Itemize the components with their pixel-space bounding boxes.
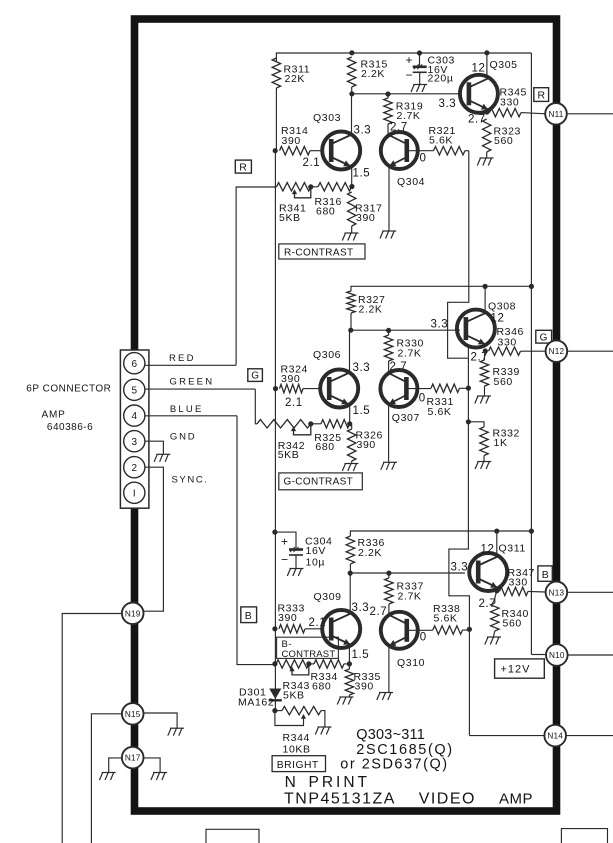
wire: R314 to Q303 base (310, 150, 322, 152)
label box +12V (495, 659, 545, 678)
junction: R315 top / bus (349, 50, 354, 55)
resistor R332 1K (480, 427, 488, 456)
wiper arm R342 (294, 424, 311, 435)
connector pin 3 (124, 431, 145, 452)
connector pin 6 (124, 353, 145, 374)
svg-text:640386-6: 640386-6 (47, 422, 93, 433)
svg-text:N14: N14 (547, 732, 563, 741)
wire: Q306 collector riser (349, 330, 351, 373)
svg-text:Q310: Q310 (397, 657, 425, 669)
potentiometer R344 10KB (282, 706, 321, 714)
svg-text:BLUE: BLUE (170, 404, 204, 415)
resistor R330 2.7K (384, 335, 392, 361)
svg-text:390: 390 (282, 135, 301, 147)
ground: R317 (342, 233, 358, 241)
ground: R323 (477, 158, 493, 166)
transistor Q308 (457, 310, 495, 348)
wire: feed line to N14 (469, 735, 544, 737)
svg-text:680: 680 (316, 206, 335, 218)
resistor R323 560 (483, 119, 491, 152)
junction: R343 wiper (306, 661, 311, 666)
wire: bus to C303 (419, 53, 421, 66)
svg-text:N17: N17 (125, 754, 141, 763)
ground: R344 (315, 727, 331, 735)
wire: +12V rail right side (top segment) (530, 53, 532, 287)
svg-text:3.3: 3.3 (354, 125, 372, 137)
svg-text:CONTRAST: CONTRAST (282, 649, 336, 660)
svg-text:5KB: 5KB (283, 690, 305, 702)
svg-text:2.1: 2.1 (285, 397, 303, 409)
wire: C304 to ground (295, 555, 297, 568)
ground: C304 (287, 569, 303, 577)
wire: GREEN input to R342 (255, 389, 257, 424)
wire: G stage top bus (351, 286, 531, 291)
wiper arm R343 (292, 664, 309, 675)
junction: Q308 collector / bus (483, 284, 488, 289)
wire: Q306 emitter down (349, 404, 351, 423)
junction: Q306 collector / bus (348, 328, 353, 333)
resistor R327 2.2K (347, 291, 355, 313)
wire: N19 to left riser (62, 614, 122, 843)
junction: Q306 emitter / R325 / R326 (347, 421, 352, 426)
capacitor C304 10u (289, 547, 303, 555)
resistor R334 680 (314, 660, 344, 668)
svg-text:N: N (285, 774, 297, 791)
wire: R347 to N13 (528, 590, 546, 593)
potentiometer R342 5KB (257, 420, 311, 428)
svg-text:2: 2 (132, 463, 138, 474)
node: R input (273, 148, 278, 153)
label box B-CONTRAST (277, 637, 339, 658)
node N13 (546, 582, 568, 604)
wire: +12V top bus (R stage) (276, 53, 531, 61)
ground: R335 (337, 697, 353, 705)
svg-text:3.3: 3.3 (352, 602, 370, 614)
svg-text:390: 390 (278, 612, 297, 624)
wire: Q310 base lead to R338 (407, 629, 433, 631)
ground: pin 3 GND (154, 454, 170, 462)
svg-text:SYNC.: SYNC. (172, 475, 209, 486)
svg-text:N19: N19 (125, 609, 141, 618)
svg-text:BRIGHT: BRIGHT (277, 760, 319, 771)
transistor Q306 (320, 370, 358, 408)
resistor R317 390 (348, 192, 356, 226)
svg-text:0: 0 (420, 153, 427, 165)
wire: net to R332 (468, 422, 484, 427)
wire: Q311 base bus (350, 572, 465, 574)
junction: C304 / bias bus (272, 530, 277, 535)
svg-text:2.1: 2.1 (303, 157, 321, 169)
svg-text:390: 390 (356, 212, 375, 224)
junction: Q308 emitter node (483, 348, 488, 353)
svg-text:GND: GND (170, 432, 197, 443)
svg-text:+: + (406, 53, 414, 67)
svg-text:or 2SD637(Q): or 2SD637(Q) (340, 757, 448, 773)
svg-text:PRINT: PRINT (309, 774, 371, 791)
svg-text:0: 0 (419, 393, 426, 405)
svg-text:Q303~311: Q303~311 (356, 727, 425, 743)
resistor R326 390 (348, 429, 356, 461)
svg-text:N10: N10 (549, 651, 565, 660)
junction: Q303 emitter / R316 / R317 (349, 184, 354, 189)
wire: +12V rail (middle segment) (530, 287, 532, 531)
resistor R319 2.7K (384, 98, 392, 124)
wire: Q305 collector riser (486, 53, 488, 78)
svg-text:6P CONNECTOR: 6P CONNECTOR (26, 383, 111, 394)
svg-text:12: 12 (481, 544, 495, 556)
transistor Q303 (322, 132, 360, 170)
wiper arm R344 (275, 711, 304, 726)
svg-text:R: R (538, 89, 546, 101)
svg-text:+12V: +12V (501, 664, 531, 676)
node N12 (546, 340, 568, 362)
transistor Q310 (381, 612, 418, 649)
svg-text:N12: N12 (549, 347, 565, 356)
resistor R345 330 (490, 108, 522, 116)
ground: Q304 emitter (380, 231, 396, 239)
svg-text:5.6K: 5.6K (429, 135, 453, 147)
node N14 (544, 725, 566, 747)
svg-text:AMP: AMP (42, 409, 66, 420)
svg-text:6: 6 (132, 359, 138, 370)
wire: N17 left ground (109, 758, 122, 772)
partial box bottom-right (561, 829, 607, 843)
svg-text:N15: N15 (125, 710, 141, 719)
ground: N15 right (168, 728, 184, 736)
resistor R346 330 (489, 347, 521, 355)
wiper arm R341 (295, 187, 311, 198)
node N19 (122, 603, 144, 625)
svg-text:RED: RED (169, 353, 196, 364)
svg-text:Q311: Q311 (499, 543, 526, 555)
resistor R339 560 (480, 360, 488, 386)
svg-text:390: 390 (357, 439, 376, 451)
resistor R316 680 (318, 183, 352, 191)
net label R (output) (534, 88, 549, 102)
wire: RED from pin 6 (145, 364, 236, 366)
junction: R332 / net (466, 419, 471, 424)
svg-text:10µ: 10µ (306, 556, 326, 568)
ground: R340 (485, 637, 501, 645)
wire: N12 to edge (567, 350, 613, 352)
wire: R324 to Q306 base (303, 388, 320, 390)
resistor R333 390 (279, 625, 305, 633)
resistor R337 2.7K (385, 578, 393, 604)
svg-text:VIDEO: VIDEO (419, 791, 476, 808)
svg-text:Q305: Q305 (490, 59, 518, 71)
svg-text:5.6K: 5.6K (428, 406, 452, 418)
resistor R335 390 (345, 669, 353, 695)
svg-text:220µ: 220µ (428, 73, 454, 85)
wire: R315 to base bus (351, 87, 353, 94)
svg-text:MA162: MA162 (238, 696, 274, 708)
label box BRIGHT (272, 756, 325, 772)
transistor Q311 (469, 553, 507, 591)
wire: N10 to edge (567, 654, 613, 656)
net label B (input) (241, 607, 257, 623)
wire: BLUE from pin 4 (145, 415, 237, 417)
transistor Q305 (460, 75, 498, 113)
svg-text:5.6K: 5.6K (434, 613, 458, 625)
net label G (output) (536, 330, 552, 343)
wire: N15 right ground (144, 713, 178, 728)
transistor Q304 (381, 132, 418, 169)
wire: GREEN from pin 5 (145, 388, 255, 390)
resistor R314 390 (280, 147, 311, 155)
svg-text:2.7K: 2.7K (398, 348, 422, 360)
svg-text:390: 390 (281, 373, 300, 385)
svg-text:3.3: 3.3 (439, 98, 457, 110)
resistor R338 5.6K (433, 626, 463, 634)
svg-text:1.5: 1.5 (353, 405, 371, 417)
wire: B stage top bus (350, 531, 531, 536)
net label B (output) (538, 566, 552, 581)
ground: N17 right (151, 773, 167, 781)
wire: Q307 emitter to ground (388, 405, 390, 462)
svg-text:0: 0 (420, 631, 427, 643)
svg-text:680: 680 (315, 441, 334, 453)
node N17 (122, 747, 144, 769)
connector pin 2 (124, 457, 145, 478)
ground: N17 left (100, 773, 116, 781)
wire: GND from pin 3 (145, 441, 164, 454)
wire: Q311 collector riser (496, 531, 498, 556)
resistor R340 560 (491, 603, 499, 631)
wire: Q308 base bus (351, 329, 460, 331)
resistor R311 22K (272, 58, 280, 88)
svg-text:2.2K: 2.2K (359, 304, 383, 316)
junction: C303 / top bus (417, 50, 422, 55)
junction: Q305 emitter node (484, 109, 489, 114)
svg-text:2.7K: 2.7K (398, 591, 422, 603)
resistor R331 5.6K (431, 384, 460, 392)
diode D301 MA162 (269, 689, 281, 700)
wire: input bias bus vertical (274, 151, 276, 711)
svg-text:10KB: 10KB (283, 743, 311, 755)
wire: R319 to Q304 (387, 124, 389, 135)
ground: R332 (475, 462, 491, 470)
junction: R341 wiper (308, 184, 313, 189)
junction: R337 top (386, 571, 391, 576)
svg-text:TNP45131ZA: TNP45131ZA (284, 791, 396, 808)
svg-text:−: − (281, 553, 289, 567)
svg-text:G: G (540, 332, 548, 343)
svg-text:G-CONTRAST: G-CONTRAST (284, 477, 354, 488)
wire: R311 bottom to input node (275, 88, 277, 151)
svg-text:560: 560 (503, 618, 522, 630)
wire: +12V rail to N10 (531, 654, 546, 656)
svg-text:1.5: 1.5 (352, 649, 370, 661)
svg-text:3.3: 3.3 (353, 362, 371, 374)
svg-text:1.5: 1.5 (353, 168, 371, 180)
junction: bus / 12V rail (529, 529, 534, 534)
label box G-CONTRAST (279, 473, 363, 490)
ground: Q310 emitter (377, 693, 393, 701)
svg-text:680: 680 (312, 680, 331, 692)
wire: R337 to Q310 (388, 604, 390, 615)
wire: N15 left riser (91, 714, 122, 843)
svg-text:1K: 1K (494, 437, 508, 449)
wire: Q308 base net vertical / feed to B stage (449, 346, 470, 736)
junction: R330 top (386, 328, 391, 333)
potentiometer R341 5KB (277, 183, 311, 191)
node: B input / R333 (272, 626, 277, 631)
svg-text:2.7: 2.7 (468, 114, 486, 126)
wire: R321 feed line down with jog (448, 151, 469, 359)
net label G (input) (248, 369, 263, 382)
svg-text:Q306: Q306 (313, 349, 341, 361)
junction: R331 / net (466, 386, 471, 391)
svg-text:N11: N11 (548, 110, 563, 119)
svg-text:Q303: Q303 (313, 112, 341, 124)
resistor R321 5.6K (434, 147, 466, 155)
svg-text:5KB: 5KB (279, 212, 301, 224)
main board border (135, 19, 557, 811)
junction: Q303 collector / bus (349, 91, 354, 96)
junction: Q311 collector / bus (494, 529, 499, 534)
svg-text:560: 560 (494, 135, 513, 147)
resistor R325 680 (321, 420, 350, 428)
wire: Q307 base lead to R331 (407, 388, 432, 390)
svg-text:+: + (281, 534, 289, 548)
junction: Q305 collector / top bus (484, 50, 489, 55)
svg-text:4: 4 (132, 411, 138, 422)
wire: R344 right to ground (321, 711, 325, 727)
wire: SYNC from pin 2 to N19 (144, 467, 164, 611)
wire: Q309 emitter down (348, 645, 350, 664)
junction: bus / 12V rail (529, 284, 534, 289)
svg-text:GREEN: GREEN (170, 377, 215, 388)
ground: C303 (411, 85, 427, 93)
svg-text:3.3: 3.3 (451, 562, 469, 574)
resistor R347 330 (500, 587, 529, 595)
svg-text:I: I (133, 488, 136, 499)
wire: Q303 collector riser (351, 94, 353, 135)
node N15 (122, 703, 144, 725)
resistor R324 390 (280, 384, 304, 392)
svg-text:5: 5 (132, 385, 138, 396)
svg-text:Q309: Q309 (314, 591, 342, 603)
svg-text:Q308: Q308 (488, 301, 516, 313)
svg-text:3.3: 3.3 (431, 319, 449, 331)
wire: BLUE input to R343 (237, 416, 276, 665)
capacitor C303 220u (413, 64, 427, 72)
svg-text:330: 330 (500, 96, 519, 108)
wire: N14 to edge (566, 735, 613, 737)
resistor R336 2.2K (346, 536, 354, 564)
svg-text:12: 12 (491, 313, 505, 325)
wire: Q304 emitter to ground (388, 167, 390, 231)
svg-text:AMP: AMP (499, 791, 533, 808)
wire: R346 to N12 (521, 350, 546, 352)
svg-text:330: 330 (498, 337, 517, 349)
wire: Q304 base lead to R321 (407, 150, 434, 152)
junction: D301 / R344 (272, 708, 277, 713)
svg-text:B: B (542, 569, 550, 581)
wire: Q310 emitter to ground (388, 646, 390, 692)
svg-text:3: 3 (132, 437, 138, 448)
junction: Q309 emitter / R334 / R335 (347, 661, 352, 666)
junction: R342 wiper (308, 421, 313, 426)
wire: +12V rail (bottom segment) (530, 531, 532, 655)
svg-text:330: 330 (509, 577, 528, 589)
net label R (input) (235, 160, 251, 173)
svg-text:Q307: Q307 (392, 412, 420, 424)
connector pin 5 (124, 379, 145, 400)
potentiometer R343 5KB (276, 660, 309, 668)
wire: Q308 collector riser (484, 286, 486, 312)
junction: Q309 collector / bus (348, 571, 353, 576)
svg-text:12: 12 (472, 63, 486, 75)
junction: R319 top (385, 91, 390, 96)
svg-text:390: 390 (355, 680, 374, 692)
svg-text:560: 560 (494, 376, 513, 388)
connector 6P body (120, 350, 148, 508)
svg-text:−: − (406, 68, 414, 82)
svg-text:22K: 22K (285, 73, 305, 85)
wire: C303 to ground (419, 72, 421, 84)
svg-text:R344: R344 (283, 732, 311, 744)
node N11 (545, 103, 567, 125)
svg-text:Q304: Q304 (397, 176, 425, 188)
svg-text:2.2K: 2.2K (358, 547, 382, 559)
wire: Q309 collector riser (349, 573, 351, 613)
node N10 (546, 644, 568, 666)
svg-text:N13: N13 (549, 588, 565, 597)
resistor R315 2.2K (348, 57, 356, 87)
connector pin 4 (124, 405, 145, 426)
svg-text:B: B (245, 610, 253, 622)
wire: R330 to Q307 (388, 361, 390, 373)
junction: R338 / N14 line (467, 627, 472, 632)
junction: Q311 emitter node (494, 588, 499, 593)
wire: N13 to edge (567, 591, 613, 593)
ground: R326 (342, 464, 358, 472)
ground: R339 (475, 396, 491, 404)
svg-text:R: R (239, 161, 247, 173)
label box R-CONTRAST (279, 244, 365, 259)
wire: RED input to R341 (236, 187, 276, 365)
wire: Q303 emitter down (351, 166, 353, 186)
junction: R343 / bias bus / BLUE (272, 661, 277, 666)
svg-text:16V: 16V (306, 545, 326, 557)
wire: bias bus to C304 (275, 532, 296, 548)
wire: N17 right ground (144, 758, 161, 772)
partial box bottom-left (206, 829, 259, 843)
wire: Q305 base bus (352, 93, 461, 95)
svg-text:G: G (251, 371, 259, 382)
transistor Q309 (322, 610, 360, 648)
svg-text:R-CONTRAST: R-CONTRAST (284, 247, 354, 258)
wire: N11 to edge (567, 113, 613, 115)
svg-text:5KB: 5KB (278, 449, 300, 461)
svg-text:2.7K: 2.7K (397, 110, 421, 122)
svg-text:2.2K: 2.2K (361, 68, 385, 80)
transistor Q307 (380, 370, 417, 407)
wire: R333 to Q309 base (305, 628, 322, 630)
ground: Q307 emitter (381, 462, 397, 470)
connector pin 1 (124, 482, 145, 503)
node: G input / R324 (273, 386, 278, 391)
wire: R345 to N11 (521, 113, 546, 114)
